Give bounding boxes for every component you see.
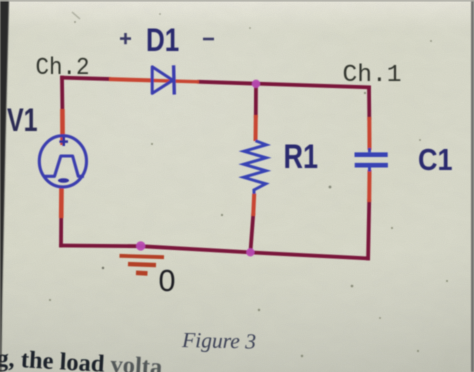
svg-text:R1: R1 xyxy=(284,137,319,176)
svg-text:Figure 3: Figure 3 xyxy=(181,328,256,354)
svg-text:D1: D1 xyxy=(146,22,179,58)
svg-text:C1: C1 xyxy=(418,143,453,177)
svg-text:0: 0 xyxy=(159,264,176,298)
svg-text:Ch.1: Ch.1 xyxy=(343,62,402,88)
svg-text:V1: V1 xyxy=(7,103,38,139)
svg-text:Ch.2: Ch.2 xyxy=(36,54,90,81)
